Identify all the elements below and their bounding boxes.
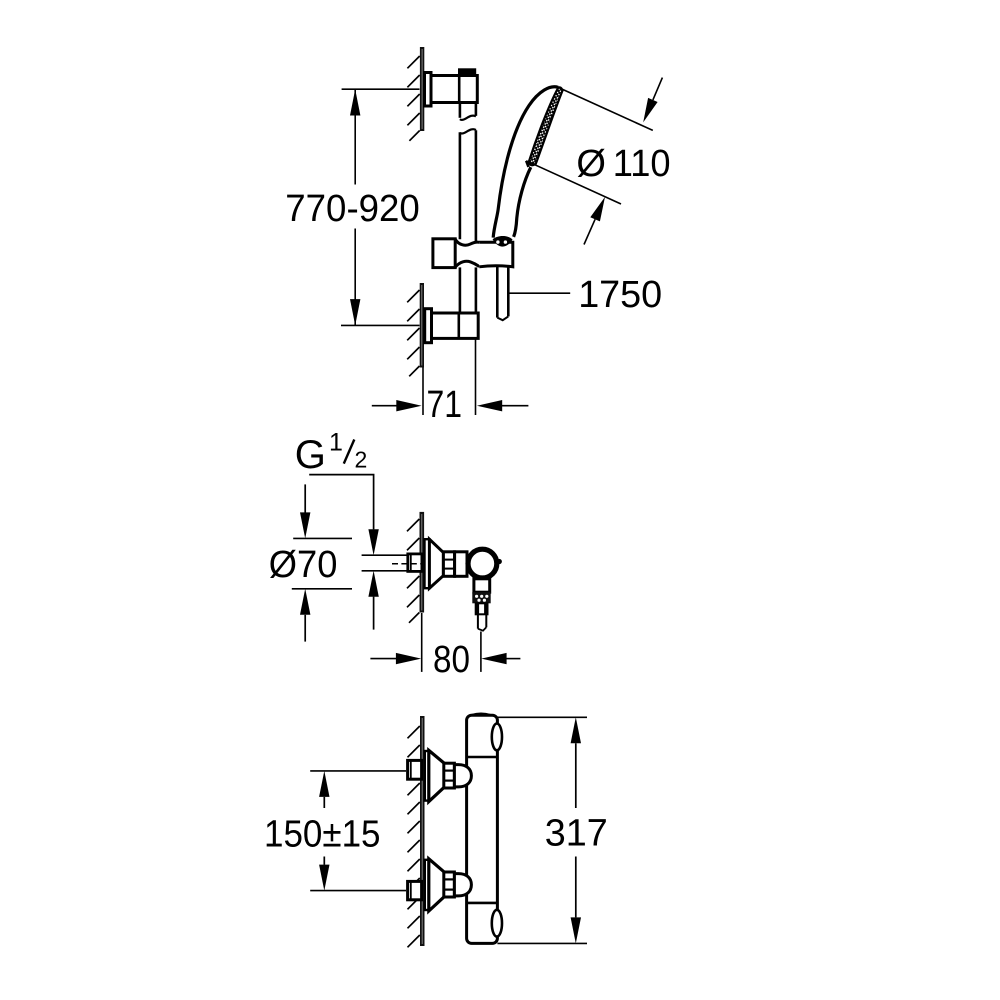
- upper bracket flange: [425, 73, 432, 107]
- hand shower handle end cap in holder: [493, 236, 513, 247]
- valve outlet tube: [478, 614, 486, 630]
- hand shower handle right edge: [514, 167, 531, 237]
- hand shower face bottom notch: [526, 161, 528, 167]
- dimension 770-920 top extension line: [342, 88, 420, 90]
- svg-text:150±15: 150±15: [264, 813, 381, 855]
- BOTTOM SECTION: thermostatic mixer: [264, 714, 608, 948]
- dimension 80 left arrow: [370, 653, 421, 664]
- dimension text Ø110: [576, 143, 670, 185]
- mixer bottom knob (side view ellipse): [492, 910, 502, 937]
- svg-text:Ø: Ø: [576, 143, 606, 185]
- valve escutcheon band: [425, 539, 430, 588]
- hatch marks upper wall plate: [407, 56, 419, 141]
- top inlet hex nut: [408, 760, 422, 779]
- svg-text:71: 71: [427, 384, 463, 426]
- dimension 150±15 upper arrow (up): [319, 771, 329, 808]
- MIDDLE SECTION: shower valve: [269, 428, 521, 681]
- G 1/2 extension lines from nut: [362, 555, 408, 571]
- valve knurled nut: [472, 592, 490, 603]
- bottom inlet union dome: [454, 874, 471, 896]
- top inlet escutcheon band: [425, 751, 429, 801]
- dimension Ø110 upper tangent line: [558, 87, 653, 130]
- dimension 80 right extension line: [480, 632, 482, 672]
- dimension Ø70 upper line with arrow: [300, 484, 310, 538]
- mixer body lower separation line: [467, 902, 498, 905]
- hatch marks bottom wall plate: [408, 726, 420, 947]
- svg-text:1750: 1750: [578, 274, 662, 316]
- bottom inlet hex nut: [408, 881, 422, 899]
- leader line 1750: [510, 292, 571, 294]
- lower bracket arm: [432, 313, 479, 338]
- top inlet escutcheon cone: [429, 750, 445, 801]
- lower bracket arm inner line: [457, 313, 460, 338]
- dimension 80 left extension line: [421, 613, 423, 672]
- wall plate bottom: [420, 716, 425, 946]
- svg-text:G: G: [295, 433, 326, 477]
- mixer body: [467, 715, 498, 943]
- TOP SECTION: shower rail with hand shower: [285, 47, 670, 426]
- top inlet ribbed connector: [444, 763, 455, 788]
- svg-text:317: 317: [545, 813, 608, 855]
- valve body block: [455, 552, 467, 577]
- valve knob ring: [468, 549, 502, 578]
- wall plate top (upper bracket): [420, 47, 424, 131]
- G 1/2 upper arrow (down): [368, 529, 378, 555]
- mixer top knob (side view ellipse): [492, 724, 502, 751]
- G 1/2 lower arrow (up) with tail: [368, 571, 378, 630]
- dimension 71 left extension line: [422, 368, 424, 416]
- dimension 71 right arrow: [477, 400, 529, 411]
- valve ribbed connector: [443, 552, 454, 577]
- valve hose nipple: [476, 603, 488, 614]
- hatch marks lower wall plate: [407, 290, 419, 376]
- bottom inlet center line dashed part: [407, 890, 422, 892]
- G 1/2 reference underline and drop line: [309, 475, 373, 530]
- valve center line (dashed): [392, 563, 422, 565]
- dimension 317 line lower segment with arrow: [571, 857, 581, 944]
- mixer body upper separation line: [467, 756, 498, 759]
- dimension Ø110 upper arrow: [643, 78, 662, 123]
- shower hose: [497, 267, 508, 318]
- wall plate lower (lower bracket): [420, 283, 424, 368]
- lower bracket flange: [425, 309, 432, 343]
- text G 1/2: [295, 428, 367, 477]
- svg-text:Ø70: Ø70: [269, 544, 338, 586]
- bottom inlet nut inner line: [410, 881, 412, 899]
- valve inlet hex nut: [408, 554, 422, 572]
- dimension 71 right extension line: [475, 338, 477, 415]
- rail right edge segments: [475, 103, 478, 314]
- G 1/2 fraction slash: [344, 440, 355, 464]
- rail top cap: [458, 68, 476, 75]
- dimension 770-920 line segments: [354, 89, 356, 325]
- hatch marks middle wall plate: [407, 519, 419, 623]
- dimension 80 right arrow: [481, 653, 520, 664]
- rail left edge segments: [459, 103, 462, 314]
- valve escutcheon cone: [429, 539, 443, 588]
- slider holder left block: [433, 239, 455, 268]
- mixer body top rim arc: [472, 714, 491, 715]
- dimension Ø110 lower tangent line: [526, 161, 621, 204]
- top inlet center line solid part: [310, 770, 406, 772]
- svg-text:1: 1: [329, 428, 343, 456]
- dimension Ø70 lower line with arrow: [300, 589, 310, 642]
- dimension 317 bottom extension line: [497, 942, 587, 944]
- dimension 770-920 arrow down: [350, 299, 360, 325]
- slider holder saddle: [455, 239, 479, 267]
- svg-text:770-920: 770-920: [285, 188, 420, 230]
- dimension 71 left arrow: [372, 400, 422, 411]
- dimension 317 top extension line: [497, 716, 587, 718]
- hand shower back outline: [493, 87, 558, 238]
- top inlet center line dashed part: [407, 770, 422, 772]
- rail break wavy lines: [460, 116, 476, 134]
- dimension 150±15 lower arrow (down): [319, 857, 329, 891]
- dimension Ø70 top extension line: [293, 537, 352, 539]
- top inlet union dome: [454, 765, 471, 787]
- dimension 770-920 bottom extension line: [341, 324, 420, 326]
- valve outlet neck: [474, 579, 490, 592]
- dimension Ø70 bottom extension line: [292, 588, 352, 590]
- upper bracket arm inner line: [458, 76, 461, 103]
- upper bracket arm: [431, 76, 477, 103]
- bottom inlet escutcheon band: [425, 860, 429, 910]
- svg-text:110: 110: [613, 143, 671, 185]
- bottom inlet escutcheon cone: [429, 859, 445, 911]
- shower hose bottom cut: [497, 316, 508, 320]
- valve inlet nut inner line: [410, 554, 412, 572]
- bottom inlet ribbed connector: [444, 872, 455, 897]
- hand shower spray face band (stippled): [529, 87, 563, 165]
- bottom inlet center line solid part: [310, 890, 406, 892]
- dimension 770-920 arrow up: [350, 89, 360, 115]
- dimension 317 line upper segment with arrow: [571, 717, 581, 808]
- dimension Ø110 lower arrow: [584, 197, 605, 245]
- slider holder right block: [479, 242, 513, 267]
- svg-text:80: 80: [433, 639, 470, 681]
- top inlet nut inner line: [410, 760, 412, 779]
- svg-text:2: 2: [355, 446, 368, 472]
- wall plate middle: [420, 512, 425, 613]
